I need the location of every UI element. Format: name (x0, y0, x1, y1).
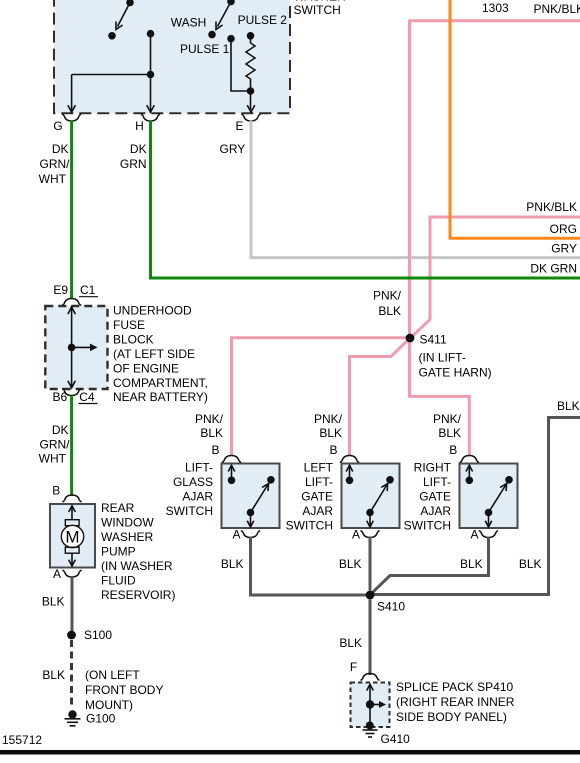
svg-text:GRN: GRN (120, 157, 147, 171)
svg-text:B: B (211, 443, 219, 457)
svg-text:RESERVOIR): RESERVOIR) (101, 588, 175, 602)
svg-text:GATE: GATE (419, 490, 451, 504)
svg-text:DK: DK (130, 142, 147, 156)
svg-text:AJAR: AJAR (302, 504, 333, 518)
svg-text:COMPARTMENT,: COMPARTMENT, (113, 376, 208, 390)
svg-text:GRN/: GRN/ (40, 157, 71, 171)
svg-text:LEFT: LEFT (304, 461, 334, 475)
svg-text:1303: 1303 (482, 1, 509, 15)
svg-text:(AT LEFT SIDE: (AT LEFT SIDE (113, 347, 195, 361)
svg-text:DK: DK (52, 423, 69, 437)
svg-text:BLK: BLK (42, 668, 65, 682)
svg-text:LIFT-: LIFT- (185, 461, 213, 475)
svg-text:LIFT-: LIFT- (305, 475, 333, 489)
svg-text:BLK: BLK (378, 304, 401, 318)
svg-text:A: A (470, 527, 478, 541)
svg-text:SWITCH: SWITCH (404, 519, 451, 533)
svg-text:(ON LEFT: (ON LEFT (85, 668, 140, 682)
svg-text:155712: 155712 (2, 733, 42, 747)
svg-text:GRY: GRY (220, 142, 246, 156)
svg-text:SWITCH: SWITCH (166, 504, 213, 518)
svg-text:OF ENGINE: OF ENGINE (113, 361, 179, 375)
svg-text:PULSE 2: PULSE 2 (238, 13, 288, 27)
svg-text:WASH: WASH (171, 16, 207, 30)
svg-text:SIDE BODY PANEL): SIDE BODY PANEL) (396, 710, 507, 724)
svg-text:WINDOW: WINDOW (101, 516, 154, 530)
svg-text:C4: C4 (79, 390, 95, 404)
svg-text:WHT: WHT (39, 452, 67, 466)
svg-text:B: B (449, 443, 457, 457)
svg-text:M: M (65, 528, 79, 547)
svg-text:MOUNT): MOUNT) (85, 698, 133, 712)
svg-text:NEAR BATTERY): NEAR BATTERY) (113, 390, 208, 404)
svg-text:S411: S411 (420, 332, 447, 346)
svg-text:BLK: BLK (557, 399, 580, 413)
svg-text:PNK/: PNK/ (373, 289, 402, 303)
svg-text:FRONT BODY: FRONT BODY (85, 683, 163, 697)
svg-text:BLK: BLK (221, 557, 244, 571)
svg-text:RIGHT: RIGHT (414, 461, 452, 475)
svg-text:SPLICE PACK SP410: SPLICE PACK SP410 (396, 680, 513, 694)
svg-text:GATE: GATE (301, 490, 333, 504)
svg-text:S410: S410 (377, 600, 405, 614)
svg-text:GLASS: GLASS (173, 475, 213, 489)
svg-text:BLK: BLK (438, 426, 461, 440)
svg-text:G410: G410 (381, 732, 411, 746)
svg-text:WASHER: WASHER (101, 530, 154, 544)
svg-text:PNK/: PNK/ (195, 412, 224, 426)
svg-text:SWITCH: SWITCH (286, 519, 333, 533)
svg-text:DK: DK (52, 142, 69, 156)
svg-text:G: G (53, 119, 62, 133)
svg-text:PNK/: PNK/ (314, 412, 343, 426)
svg-text:G100: G100 (86, 712, 116, 726)
svg-text:AJAR: AJAR (420, 504, 451, 518)
svg-text:BLK: BLK (339, 557, 362, 571)
svg-text:A: A (352, 527, 360, 541)
svg-text:PNK/BLK: PNK/BLK (534, 2, 580, 16)
svg-text:ORG: ORG (550, 222, 577, 236)
svg-text:(IN LIFT-: (IN LIFT- (419, 351, 466, 365)
svg-text:REAR: REAR (101, 501, 135, 515)
svg-text:FUSE: FUSE (113, 318, 145, 332)
svg-text:FLUID: FLUID (101, 574, 136, 588)
svg-text:BLK: BLK (460, 557, 483, 571)
svg-text:BLK: BLK (519, 557, 542, 571)
svg-text:UNDERHOOD: UNDERHOOD (113, 304, 192, 318)
svg-text:WHT: WHT (39, 172, 67, 186)
svg-text:E9: E9 (53, 283, 68, 297)
svg-text:H: H (135, 119, 144, 133)
svg-text:E: E (235, 119, 243, 133)
svg-text:GRN/: GRN/ (40, 438, 71, 452)
svg-text:(IN WASHER: (IN WASHER (101, 559, 173, 573)
svg-text:PNK/: PNK/ (433, 412, 462, 426)
svg-text:S100: S100 (84, 628, 112, 642)
svg-text:F: F (350, 660, 357, 674)
svg-text:B: B (329, 443, 337, 457)
svg-text:SWITCH: SWITCH (294, 3, 341, 17)
svg-text:PNK/BLK: PNK/BLK (526, 200, 577, 214)
svg-text:BLK: BLK (42, 595, 65, 609)
svg-text:B: B (52, 484, 60, 498)
svg-text:BLK: BLK (339, 636, 362, 650)
svg-text:PUMP: PUMP (101, 545, 136, 559)
svg-text:GATE HARN): GATE HARN) (419, 366, 492, 380)
svg-text:GRY: GRY (551, 242, 577, 256)
svg-text:A: A (53, 567, 61, 581)
svg-text:LIFT-: LIFT- (423, 475, 451, 489)
svg-text:BLK: BLK (200, 426, 223, 440)
svg-text:A: A (232, 527, 240, 541)
svg-text:BLOCK: BLOCK (113, 332, 154, 346)
svg-text:BLK: BLK (319, 426, 342, 440)
svg-text:(RIGHT REAR INNER: (RIGHT REAR INNER (396, 695, 515, 709)
svg-text:C1: C1 (80, 283, 96, 297)
svg-text:DK GRN: DK GRN (530, 262, 577, 276)
svg-text:PULSE 1: PULSE 1 (180, 42, 230, 56)
svg-text:AJAR: AJAR (182, 490, 213, 504)
